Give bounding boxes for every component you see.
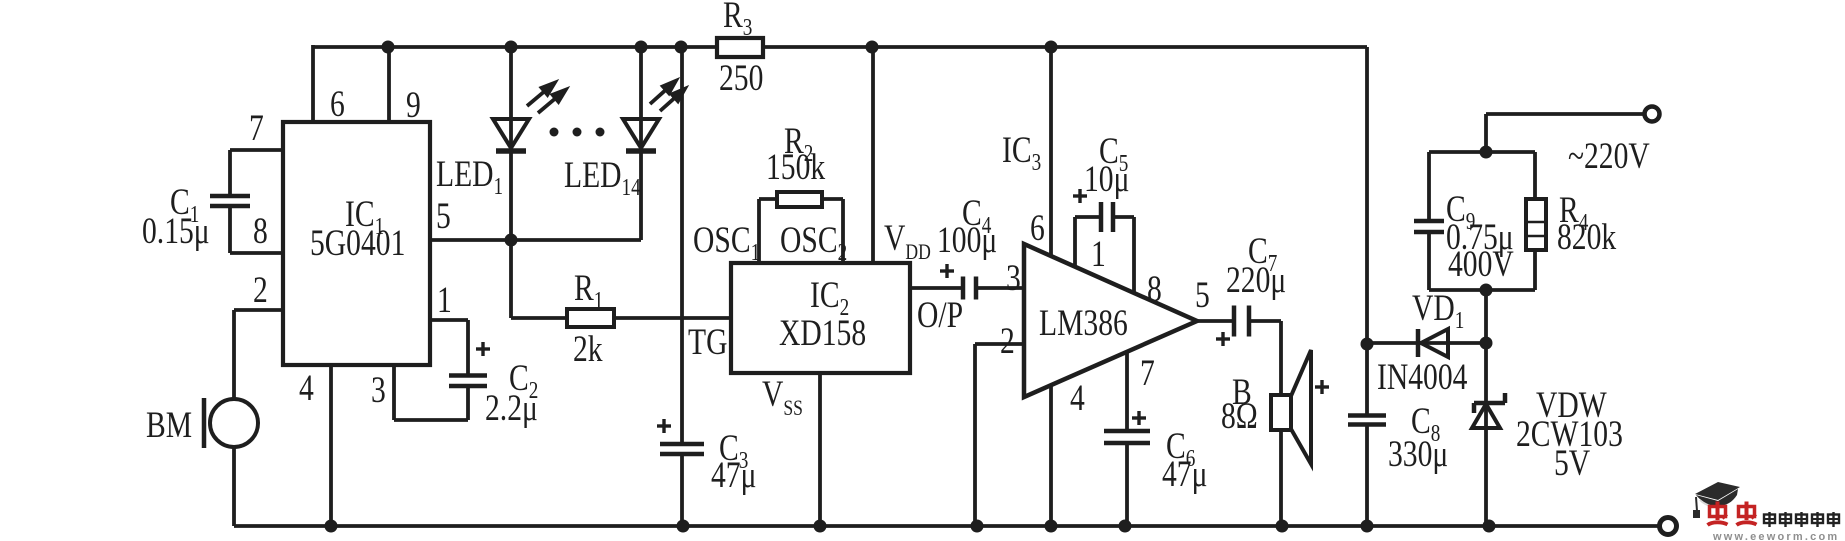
svg-text:400V: 400V <box>1448 244 1514 285</box>
svg-text:5V: 5V <box>1554 443 1590 484</box>
svg-text:1: 1 <box>1091 234 1106 275</box>
svg-text:330μ: 330μ <box>1388 434 1448 475</box>
svg-text:9: 9 <box>406 85 421 126</box>
svg-text:1: 1 <box>437 280 452 321</box>
svg-text:4: 4 <box>1070 378 1085 419</box>
svg-text:LM386: LM386 <box>1039 303 1128 344</box>
svg-text:47μ: 47μ <box>711 455 756 496</box>
svg-text:BM: BM <box>146 405 192 446</box>
svg-text:47μ: 47μ <box>1162 454 1207 495</box>
svg-text:5G0401: 5G0401 <box>310 223 405 264</box>
svg-text:6: 6 <box>330 84 345 125</box>
svg-text:VD1: VD1 <box>1412 288 1464 334</box>
svg-text:5: 5 <box>436 196 451 237</box>
svg-text:7: 7 <box>1140 353 1155 394</box>
svg-text:820k: 820k <box>1557 217 1616 258</box>
svg-text:2: 2 <box>1000 321 1015 362</box>
svg-text:250: 250 <box>719 58 763 99</box>
svg-text:8: 8 <box>1147 269 1162 310</box>
svg-text:OSC1: OSC1 <box>693 220 760 266</box>
svg-text:5: 5 <box>1195 275 1210 316</box>
svg-text:2: 2 <box>253 270 268 311</box>
svg-text:100μ: 100μ <box>937 220 997 261</box>
svg-text:8Ω: 8Ω <box>1221 396 1258 437</box>
svg-text:3: 3 <box>1006 258 1021 299</box>
svg-text:~220V: ~220V <box>1568 136 1650 177</box>
svg-text:XD158: XD158 <box>779 313 866 354</box>
svg-text:7: 7 <box>249 108 264 149</box>
svg-text:LED14: LED14 <box>564 155 641 201</box>
svg-text:R1: R1 <box>574 268 603 314</box>
svg-text:150k: 150k <box>766 147 825 188</box>
svg-text:2k: 2k <box>573 329 603 370</box>
svg-text:6: 6 <box>1030 208 1045 249</box>
svg-text:4: 4 <box>299 368 314 409</box>
svg-text:10μ: 10μ <box>1084 159 1129 200</box>
svg-text:LED1: LED1 <box>436 154 503 200</box>
svg-text:8: 8 <box>253 211 268 252</box>
svg-text:OSC2: OSC2 <box>780 220 847 266</box>
svg-text:TG: TG <box>688 322 727 363</box>
svg-text:R3: R3 <box>723 0 752 41</box>
svg-text:VDD: VDD <box>884 218 931 265</box>
svg-text:2.2μ: 2.2μ <box>485 388 538 429</box>
svg-text:220μ: 220μ <box>1226 260 1286 301</box>
svg-text:IC3: IC3 <box>1002 130 1041 176</box>
svg-text:IN4004: IN4004 <box>1377 357 1468 398</box>
svg-text:VSS: VSS <box>762 374 803 421</box>
svg-text:3: 3 <box>371 370 386 411</box>
svg-text:www.eeworm.com: www.eeworm.com <box>1712 531 1839 541</box>
svg-text:0.15μ: 0.15μ <box>142 211 210 252</box>
svg-text:O/P: O/P <box>917 295 963 336</box>
